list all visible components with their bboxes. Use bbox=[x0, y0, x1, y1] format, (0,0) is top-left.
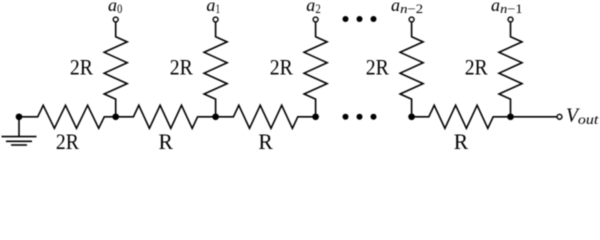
svg-text:2R: 2R bbox=[56, 130, 79, 150]
svg-text:2: 2 bbox=[315, 2, 320, 16]
svg-text:2R: 2R bbox=[170, 56, 193, 80]
svg-text:out: out bbox=[578, 112, 600, 127]
svg-text:a: a bbox=[306, 0, 315, 15]
svg-text:R: R bbox=[158, 130, 173, 150]
svg-text:R: R bbox=[454, 130, 469, 150]
svg-text:a: a bbox=[391, 0, 400, 15]
svg-text:2R: 2R bbox=[366, 56, 389, 80]
svg-text:a: a bbox=[108, 0, 117, 15]
svg-text:n−2: n−2 bbox=[400, 2, 423, 16]
svg-text:a: a bbox=[491, 0, 500, 15]
svg-text:a: a bbox=[206, 0, 215, 15]
svg-text:2R: 2R bbox=[70, 56, 93, 80]
svg-text:0: 0 bbox=[117, 2, 122, 16]
svg-text:1: 1 bbox=[216, 2, 221, 16]
svg-text:n−1: n−1 bbox=[500, 2, 523, 16]
svg-text:2R: 2R bbox=[270, 56, 293, 80]
svg-text:2R: 2R bbox=[465, 56, 488, 80]
svg-text:R: R bbox=[258, 130, 273, 150]
